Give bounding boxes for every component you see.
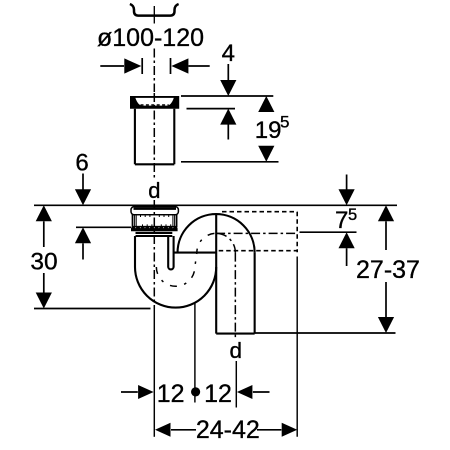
trap dip tube [168, 236, 173, 269]
dimension 6 arrows [82, 174, 84, 190]
svg-text:24-42: 24-42 [196, 416, 260, 444]
arrow right-pointing [124, 58, 141, 73]
dimension 12-12 right arrow [237, 385, 253, 399]
svg-text:d: d [148, 178, 160, 203]
extension line inlet axis [153, 309, 155, 437]
dimension line ø100-120 [100, 65, 209, 67]
ref line outlet end [255, 332, 396, 334]
knurl ticks bottom [143, 224, 171, 226]
inlet pipe [135, 109, 174, 165]
dashed extension box bottom [219, 250, 298, 252]
centerline outlet bend arc [197, 233, 216, 252]
centerline inlet pipe [153, 93, 155, 179]
trap outlet right wall [254, 253, 256, 334]
ref line pipe end [181, 161, 279, 163]
svg-text:5: 5 [280, 112, 289, 131]
extension tick right [170, 58, 172, 74]
trap socket knurl band [132, 215, 177, 227]
svg-text:4: 4 [222, 40, 235, 67]
dimension 7.5 [346, 175, 348, 190]
knurl ticks top [141, 215, 169, 217]
inlet cup black body [130, 96, 179, 109]
dimension 12-12 left arrow [121, 391, 138, 393]
centerline U-bend arc [156, 253, 197, 287]
trap socket bead [131, 207, 178, 215]
dimension 24-42 [155, 423, 171, 437]
svg-text:27-37: 27-37 [356, 256, 420, 284]
ref line cup top [181, 95, 273, 97]
dimension 27-37 [378, 205, 394, 221]
centerline outlet horizontal [216, 232, 297, 234]
trap outlet left wall [215, 214, 217, 334]
svg-text:ø100-120: ø100-120 [97, 24, 204, 52]
svg-text:d: d [230, 338, 243, 363]
extension line max outlet [296, 257, 298, 437]
ref line cup bottom [187, 108, 236, 110]
knurl side hatch right [173, 215, 176, 226]
svg-text:5: 5 [348, 206, 357, 224]
centerline outlet vertical [234, 253, 236, 338]
svg-text:19: 19 [255, 117, 282, 144]
cup funnel cutout [135, 98, 173, 106]
centerline outlet bend arc right quarter [216, 233, 235, 252]
knurl side hatch left [133, 215, 136, 226]
centerline trap inlet [153, 200, 155, 309]
ref line outlet axis [300, 231, 357, 233]
extension tick left [141, 58, 143, 74]
trap socket serrated ring [131, 226, 178, 231]
centerline inlet top [153, 6, 155, 24]
ref line socket lower [76, 226, 131, 228]
trap joint line [174, 252, 216, 254]
svg-text:6: 6 [75, 149, 88, 176]
trap outlet pipe end [216, 333, 254, 335]
trap outlet bend outer arc [178, 214, 255, 253]
svg-text:12: 12 [204, 380, 232, 408]
trap inlet left wall [134, 236, 136, 267]
trap U-bend outer arc [135, 267, 216, 308]
dimension 30 [36, 205, 52, 221]
extension line outlet axis [235, 361, 237, 408]
trap socket bottom lines [136, 233, 173, 236]
arrow left-pointing [171, 58, 188, 73]
wall reference line [34, 204, 397, 206]
wall funnel bracket [130, 4, 179, 16]
dashed extension box right [296, 212, 298, 253]
dashed extension box top [222, 211, 297, 213]
svg-text:30: 30 [30, 248, 57, 275]
svg-text:12: 12 [157, 380, 185, 408]
cup dashed seat [141, 104, 169, 106]
dimension 19.5 [258, 96, 274, 112]
dimension 4 arrows [227, 64, 229, 81]
ref line trap bottom [34, 308, 151, 310]
svg-text:7: 7 [335, 207, 348, 234]
extension line trap mid [194, 303, 196, 403]
node midpoint dot [191, 387, 200, 396]
